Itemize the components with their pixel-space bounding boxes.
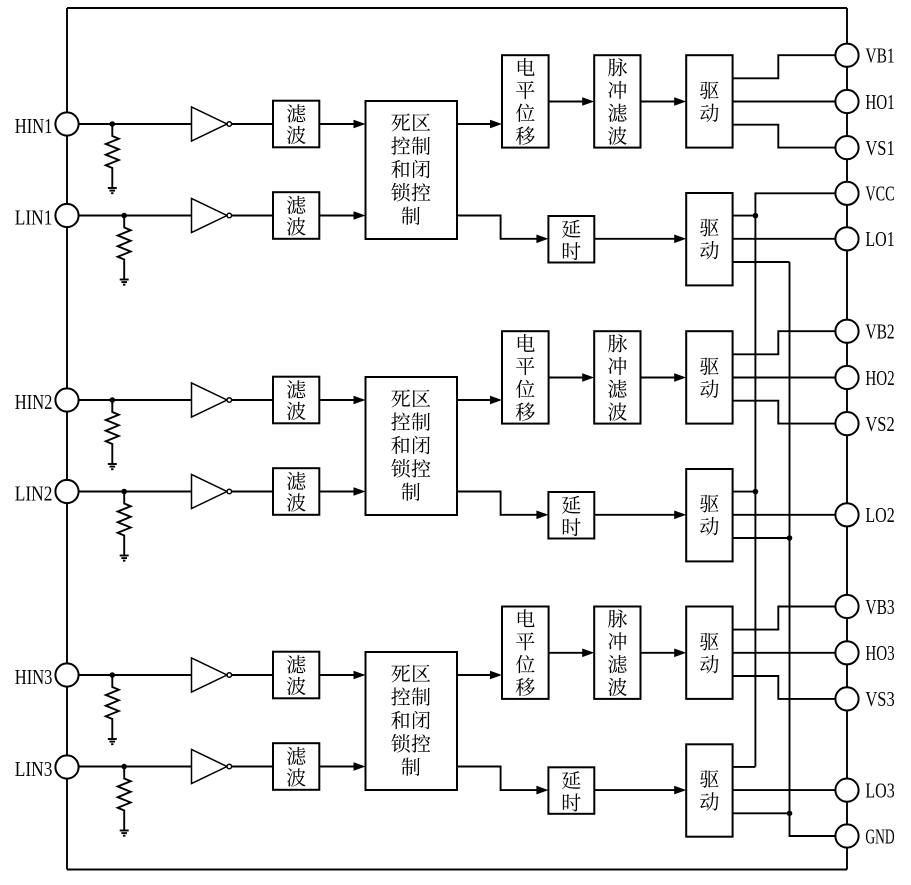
wire driver to VB1: [733, 55, 836, 78]
wire delay to low-side driver (phase 2): [594, 511, 686, 520]
input pin LIN2: [15, 480, 79, 505]
wire buffer to filter (LIN3): [232, 766, 273, 768]
svg-text:GND: GND: [865, 824, 894, 848]
wire driver to VS3: [733, 676, 836, 699]
wire buffer to filter (HIN1): [232, 123, 273, 125]
svg-text:LO2: LO2: [865, 503, 894, 527]
output pin LO3: [835, 778, 894, 802]
output pin HO2: [835, 366, 894, 390]
pull-down resistor (LIN2): [118, 492, 131, 556]
wire level shifter to pulse filter (phase 2): [549, 373, 595, 382]
buffer inverter (LIN2): [192, 475, 232, 509]
svg-text:VB1: VB1: [865, 44, 894, 68]
wire low-side driver to GND bus (phase 2): [733, 537, 790, 539]
low-side driver box 驱动 (phase 3): [686, 744, 732, 836]
filter box 滤波 (HIN2): [273, 377, 319, 424]
node GND bus junction (phase 2): [787, 535, 793, 541]
wire filter to dead-time control (LIN2): [319, 487, 365, 496]
wire driver to VS2: [733, 401, 836, 424]
ground: [120, 556, 129, 561]
wire low-side driver to LO3: [733, 789, 836, 791]
wire low-side driver to VCC bus (phase 1): [733, 215, 756, 217]
wire dead-time control to level shifter (phase 3): [457, 671, 502, 680]
pull-down resistor (HIN2): [106, 400, 119, 464]
wire VCC bus: [755, 193, 835, 766]
wire LIN3 to buffer: [79, 766, 192, 768]
filter box 滤波 (LIN2): [273, 468, 319, 515]
wire low-side driver to GND bus (phase 3): [733, 812, 790, 814]
wire LIN1 to buffer: [79, 215, 192, 217]
level shifter box 电平位移 (phase 3): [502, 607, 549, 699]
node VCC bus junction (phase 1): [753, 213, 759, 219]
svg-text:LO1: LO1: [865, 227, 894, 251]
dead-time and latch control box 死区控制和闭锁控制 (phase 2): [366, 377, 458, 515]
pull-down resistor (LIN3): [118, 767, 131, 831]
dead-time and latch control box 死区控制和闭锁控制 (phase 1): [366, 101, 458, 239]
input pin HIN3: [15, 663, 79, 688]
output pin VS2: [835, 412, 894, 436]
ground: [108, 188, 117, 193]
wire HIN3 to buffer: [79, 674, 192, 676]
wire driver to HO3: [733, 652, 836, 654]
wire driver to VS1: [733, 125, 836, 148]
wire dead-time control to level shifter (phase 1): [457, 120, 502, 129]
high-side driver box 驱动 (phase 3): [686, 607, 732, 699]
svg-text:LIN1: LIN1: [15, 205, 53, 229]
output pin VB2: [835, 320, 894, 344]
input pin HIN1: [15, 112, 79, 137]
svg-text:VCC: VCC: [865, 182, 894, 206]
delay box 延时 (phase 3): [548, 767, 594, 814]
pull-down resistor (HIN3): [106, 675, 119, 739]
svg-text:VS3: VS3: [865, 687, 894, 711]
input pin LIN3: [15, 755, 79, 780]
filter box 滤波 (HIN1): [273, 101, 319, 148]
svg-text:VS2: VS2: [865, 412, 894, 436]
wire dead-time control to level shifter (phase 2): [457, 396, 502, 405]
wire buffer to filter (LIN2): [232, 491, 273, 493]
svg-text:HIN1: HIN1: [15, 114, 53, 138]
wire driver to VB2: [733, 331, 836, 354]
right pin column vertical wire: [846, 8, 848, 870]
output pin LO2: [835, 503, 894, 527]
wire low-side driver to GND bus (phase 1): [733, 261, 790, 263]
wire driver to HO1: [733, 101, 836, 103]
buffer inverter (HIN1): [192, 107, 232, 141]
node LIN3 junction: [121, 764, 127, 770]
wire low-side driver to VCC bus (phase 3): [733, 766, 756, 768]
buffer inverter (HIN2): [192, 383, 232, 417]
wire HIN1 to buffer: [79, 123, 192, 125]
output pin LO1: [835, 227, 894, 251]
filter box 滤波 (HIN3): [273, 652, 319, 699]
svg-text:HIN2: HIN2: [15, 390, 53, 414]
wire buffer to filter (HIN3): [232, 674, 273, 676]
node HIN1 junction: [110, 121, 116, 127]
node GND bus junction (phase 3): [787, 811, 793, 817]
wire filter to dead-time control (LIN1): [319, 211, 365, 220]
wire pulse filter to high-side driver (phase 2): [641, 373, 687, 382]
wire low-side driver to VCC bus (phase 2): [733, 491, 756, 493]
node LIN2 junction: [121, 489, 127, 495]
wire buffer to filter (LIN1): [232, 215, 273, 217]
node VCC bus junction (phase 2): [753, 489, 759, 495]
low-side driver box 驱动 (phase 2): [686, 469, 732, 561]
pull-down resistor (HIN1): [106, 124, 119, 188]
buffer inverter (LIN1): [192, 199, 232, 233]
ground: [120, 831, 129, 836]
wire level shifter to pulse filter (phase 3): [549, 649, 595, 658]
wire dead-time control to delay (phase 2): [457, 492, 548, 520]
wire low-side driver to LO2: [733, 514, 836, 516]
wire delay to low-side driver (phase 3): [594, 786, 686, 795]
high-side driver box 驱动 (phase 1): [686, 55, 732, 147]
output pin VS1: [835, 136, 894, 160]
svg-text:LIN2: LIN2: [15, 481, 53, 505]
low-side driver box 驱动 (phase 1): [686, 193, 732, 285]
pulse filter box 脉冲滤波 (phase 1): [594, 55, 640, 147]
svg-text:HIN3: HIN3: [15, 665, 53, 689]
output pin VS3: [835, 687, 894, 711]
wire level shifter to pulse filter (phase 1): [549, 97, 595, 106]
node HIN2 junction: [110, 397, 116, 403]
ground: [108, 739, 117, 744]
svg-text:HO1: HO1: [865, 90, 894, 114]
level shifter box 电平位移 (phase 2): [502, 331, 549, 423]
wire LIN2 to buffer: [79, 491, 192, 493]
ground: [120, 280, 129, 285]
wire pulse filter to high-side driver (phase 1): [641, 97, 687, 106]
buffer inverter (LIN3): [192, 750, 232, 784]
wire dead-time control to delay (phase 3): [457, 767, 548, 795]
wire driver to HO2: [733, 377, 836, 379]
svg-text:HO3: HO3: [865, 641, 894, 665]
pull-down resistor (LIN1): [118, 216, 131, 280]
svg-text:VS1: VS1: [865, 136, 894, 160]
delay box 延时 (phase 1): [548, 216, 594, 263]
output pin VB1: [835, 44, 894, 68]
ground: [108, 464, 117, 469]
wire driver to VB3: [733, 607, 836, 630]
svg-text:HO2: HO2: [865, 366, 894, 390]
delay box 延时 (phase 2): [548, 492, 594, 539]
wire HIN2 to buffer: [79, 399, 192, 401]
svg-text:LIN3: LIN3: [15, 757, 53, 781]
filter box 滤波 (LIN3): [273, 743, 319, 790]
output pin VB3: [835, 595, 894, 619]
wire filter to dead-time control (HIN3): [319, 671, 365, 680]
wire GND bus: [790, 262, 836, 836]
level shifter box 电平位移 (phase 1): [502, 55, 549, 147]
pulse filter box 脉冲滤波 (phase 2): [594, 331, 640, 423]
wire buffer to filter (HIN2): [232, 399, 273, 401]
wire filter to dead-time control (HIN1): [319, 120, 365, 129]
svg-text:VB3: VB3: [865, 595, 894, 619]
buffer inverter (HIN3): [192, 658, 232, 692]
output pin VCC: [835, 182, 894, 206]
wire filter to dead-time control (LIN3): [319, 762, 365, 771]
dead-time and latch control box 死区控制和闭锁控制 (phase 3): [366, 652, 458, 790]
wire dead-time control to delay (phase 1): [457, 216, 548, 244]
node LIN1 junction: [121, 213, 127, 219]
svg-text:VB2: VB2: [865, 320, 894, 344]
input pin HIN2: [15, 388, 79, 413]
pulse filter box 脉冲滤波 (phase 3): [594, 607, 640, 699]
input pin LIN1: [15, 204, 79, 229]
output pin GND: [835, 824, 894, 848]
output pin HO1: [835, 90, 894, 114]
wire low-side driver to LO1: [733, 238, 836, 240]
wire filter to dead-time control (HIN2): [319, 396, 365, 405]
wire delay to low-side driver (phase 1): [594, 235, 686, 244]
filter box 滤波 (LIN1): [273, 192, 319, 239]
node HIN3 junction: [110, 672, 116, 678]
high-side driver box 驱动 (phase 2): [686, 331, 732, 423]
svg-text:LO3: LO3: [865, 778, 894, 802]
wire pulse filter to high-side driver (phase 3): [641, 649, 687, 658]
output pin HO3: [835, 641, 894, 665]
